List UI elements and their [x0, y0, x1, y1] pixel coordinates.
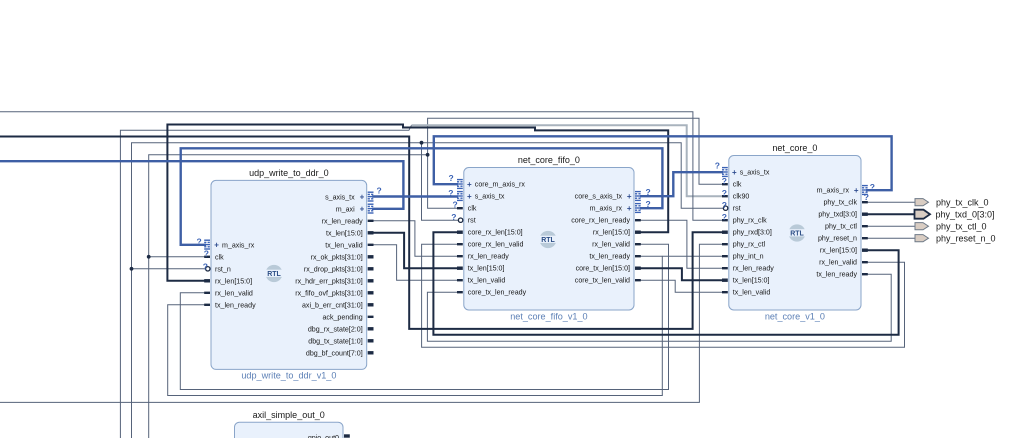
svg-text:+: + — [360, 193, 365, 202]
svg-text:core_rx_len_ready: core_rx_len_ready — [571, 217, 630, 225]
svg-text:s_axis_tx: s_axis_tx — [740, 169, 770, 177]
svg-text:rx_len_ready: rx_len_ready — [468, 253, 509, 261]
pin udp_write_to_ddr_0.m_axi — [368, 204, 374, 205]
wire udp.s_axis_tx stream to fifo.s_axis_tx — [372, 195, 458, 197]
pin net_core_fifo_0.s_axis_tx — [457, 191, 463, 192]
svg-text:+: + — [732, 168, 737, 177]
svg-text:s_axis_tx: s_axis_tx — [325, 193, 355, 201]
pin udp_write_to_ddr_0.dbg_rx_state[2:0] — [368, 327, 374, 330]
svg-text:udp_write_to_ddr_0: udp_write_to_ddr_0 — [249, 168, 329, 178]
pin net_core_0.phy_reset_n — [862, 237, 868, 239]
svg-text:?: ? — [448, 188, 453, 198]
wire clk90 net gray bus part to net_core.clk90 — [412, 125, 724, 196]
svg-text:phy_tx_ctl: phy_tx_ctl — [825, 223, 857, 231]
svg-text:tx_len[15:0]: tx_len[15:0] — [468, 265, 505, 273]
svg-text:core_rx_len_valid: core_rx_len_valid — [468, 241, 524, 249]
pin net_core_fifo_0.m_axis_rx — [635, 203, 641, 204]
output port phy_reset_n_0 — [915, 235, 929, 242]
svg-text:clk: clk — [215, 253, 224, 261]
wire rst branch to udp.rst_n — [132, 268, 207, 270]
svg-text:+: + — [627, 204, 632, 213]
RTL icon of net_core_fifo_0 — [539, 231, 558, 248]
svg-text:phy_reset_n: phy_reset_n — [818, 235, 857, 243]
wire net_core.rx_len_valid loop to fifo.core_rx_len_valid — [422, 244, 905, 347]
svg-text:rx_len[15:0]: rx_len[15:0] — [593, 229, 630, 237]
pin net_core_fifo_0.core_rx_len_valid — [457, 243, 463, 245]
pin udp_write_to_ddr_0.rx_len[15:0] — [204, 279, 210, 282]
svg-text:?: ? — [449, 173, 454, 183]
svg-text:net_core_fifo_0: net_core_fifo_0 — [518, 155, 580, 165]
wire clk branch to fifo.clk — [428, 155, 458, 208]
svg-text:phy_tx_ctl_0: phy_tx_ctl_0 — [936, 221, 987, 231]
wire clk branch to udp.clk — [149, 256, 206, 258]
pin net_core_fifo_0.core_rx_len_ready — [635, 219, 641, 221]
pin udp_write_to_ddr_0.ack_pending — [368, 316, 374, 318]
svg-text:net_core_fifo_v1_0: net_core_fifo_v1_0 — [510, 311, 587, 321]
pin udp_write_to_ddr_0.rst_n — [206, 267, 210, 271]
IP block net_core_0 — [729, 156, 861, 311]
junction clk junction to fifo — [426, 153, 430, 157]
svg-text:s_axis_tx: s_axis_tx — [475, 193, 505, 201]
svg-text:clk: clk — [733, 181, 742, 189]
wire rst net trunk to net_core.rst — [132, 143, 724, 438]
wire clk net trunk (vertical x=148.7 + horizontal y=154.8) — [149, 155, 428, 438]
svg-text:rst: rst — [733, 205, 741, 213]
pin udp_write_to_ddr_0.clk — [204, 256, 210, 258]
wire clk branch to net_core.clk — [428, 118, 723, 184]
svg-text:tx_len[15:0]: tx_len[15:0] — [326, 229, 363, 237]
pin net_core_fifo_0.tx_len_ready — [635, 255, 641, 257]
svg-text:+: + — [467, 180, 472, 189]
pin udp_write_to_ddr_0.rx_fifo_ovf_pkts[31:0] — [368, 291, 374, 294]
svg-text:rx_len_valid: rx_len_valid — [592, 241, 630, 249]
svg-text:?: ? — [377, 186, 382, 196]
pin net_core_0.phy_rx_ctl — [722, 243, 728, 245]
pin net_core_0.phy_rx_clk — [722, 219, 728, 221]
svg-text:?: ? — [453, 200, 458, 210]
svg-text:clk90: clk90 — [733, 193, 750, 201]
wire fifo.tx_len_ready stub join — [640, 255, 662, 257]
pin net_core_0.rst — [723, 206, 727, 210]
wire fifo.core_tx_len_valid to net_core.tx_len_valid — [640, 280, 723, 292]
pin net_core_0.phy_int_n — [722, 255, 728, 257]
svg-text:?: ? — [203, 261, 208, 271]
wire udp.tx_len_valid to fifo.tx_len_valid — [372, 245, 458, 280]
wire udp.tx_len_ready loop to fifo.tx_len_ready and phy_int_n row — [168, 256, 723, 395]
svg-text:dbg_rx_state[2:0]: dbg_rx_state[2:0] — [308, 325, 363, 333]
pin net_core_0.clk — [722, 183, 728, 185]
pin udp_write_to_ddr_0.rx_hdr_err_pkts[31:0] — [368, 279, 374, 282]
pin udp_write_to_ddr_0.tx_len_valid — [368, 244, 374, 246]
pin net_core_0.s_axis_tx — [722, 167, 728, 168]
svg-text:?: ? — [722, 188, 727, 198]
svg-text:tx_len_valid: tx_len_valid — [468, 277, 506, 285]
svg-text:?: ? — [451, 212, 456, 222]
wire fifo.rx_len bus over top to udp.rx_len — [167, 125, 668, 281]
pin udp_write_to_ddr_0.m_axis_rx — [204, 240, 210, 241]
svg-text:?: ? — [722, 176, 727, 186]
svg-text:m_axi: m_axi — [336, 205, 355, 213]
svg-text:+: + — [360, 205, 365, 214]
svg-text:rx_ok_pkts[31:0]: rx_ok_pkts[31:0] — [311, 253, 363, 261]
pin net_core_fifo_0.core_s_axis_tx — [635, 191, 641, 192]
pin udp_write_to_ddr_0.rx_len_valid — [204, 292, 210, 294]
wire net_core.phy_tx_clk to output port — [866, 201, 915, 203]
svg-text:phy_rx_ctl: phy_rx_ctl — [733, 241, 766, 249]
pin net_core_0.phy_tx_clk — [862, 201, 868, 203]
svg-text:+: + — [627, 192, 632, 201]
svg-text:rx_len[15:0]: rx_len[15:0] — [215, 277, 252, 285]
pin udp_write_to_ddr_0.rx_drop_pkts[31:0] — [368, 267, 374, 270]
wire udp.tx_len bus to fifo.tx_len — [372, 233, 458, 268]
svg-text:RTL: RTL — [541, 237, 555, 244]
pin net_core_fifo_0.rx_len_valid — [635, 243, 641, 245]
svg-text:phy_rxd[3:0]: phy_rxd[3:0] — [733, 229, 772, 237]
pin net_core_0.rx_len[15:0] — [862, 249, 868, 252]
wire net_core.phy_txd bus to output port — [866, 213, 914, 215]
wire fifo.core_s_axis_tx stream to net_core.s_axis_tx — [640, 172, 723, 196]
pin udp_write_to_ddr_0.rx_ok_pkts[31:0] — [368, 255, 374, 258]
svg-text:?: ? — [722, 212, 727, 222]
pin net_core_fifo_0.core_rx_len[15:0] — [457, 231, 463, 234]
pin net_core_0.rx_len_ready — [722, 267, 728, 269]
svg-text:phy_reset_n_0: phy_reset_n_0 — [936, 233, 996, 243]
pin net_core_fifo_0.core_tx_len[15:0] — [635, 267, 641, 270]
junction clk junction at udp.clk — [147, 255, 151, 259]
svg-text:tx_len_ready: tx_len_ready — [816, 271, 857, 279]
svg-text:rx_len_valid: rx_len_valid — [215, 289, 253, 297]
svg-text:?: ? — [722, 200, 727, 210]
svg-text:core_m_axis_rx: core_m_axis_rx — [475, 181, 526, 189]
svg-text:tx_len_ready: tx_len_ready — [215, 301, 256, 309]
svg-text:?: ? — [864, 192, 869, 202]
svg-text:net_core_0: net_core_0 — [772, 143, 817, 153]
svg-text:rst: rst — [468, 217, 476, 225]
svg-text:m_axis_rx: m_axis_rx — [590, 205, 623, 213]
svg-text:?: ? — [646, 199, 651, 209]
svg-text:RTL: RTL — [267, 271, 281, 278]
svg-text:+: + — [467, 192, 472, 201]
svg-text:rx_fifo_ovf_pkts[31:0]: rx_fifo_ovf_pkts[31:0] — [295, 289, 362, 297]
pin net_core_0.phy_tx_ctl — [862, 225, 868, 227]
output port phy_tx_ctl_0 — [915, 223, 929, 230]
wire net_core.rx_len bus loop to fifo.core_rx_len — [433, 232, 898, 335]
svg-text:+: + — [854, 186, 859, 195]
pin udp_write_to_ddr_0.s_axis_tx — [368, 192, 374, 193]
pin net_core_fifo_0.core_tx_len_ready — [457, 291, 463, 293]
svg-text:phy_tx_clk: phy_tx_clk — [823, 199, 857, 207]
svg-text:rx_len_ready: rx_len_ready — [322, 217, 363, 225]
svg-text:tx_len_valid: tx_len_valid — [325, 241, 363, 249]
wire phy_rx_ctl input from left edge bottom to net_core.phy_rx_ctl — [0, 244, 723, 402]
IP block axil_simple_out_0 (partially cropped) — [235, 422, 344, 438]
svg-text:+: + — [214, 241, 219, 250]
svg-text:m_axis_rx: m_axis_rx — [222, 241, 255, 249]
svg-text:phy_int_n: phy_int_n — [733, 253, 764, 261]
pin net_core_0.rx_len_valid — [862, 261, 868, 263]
wire fifo.m_axis_rx stream to udp.m_axis_rx — [181, 148, 663, 245]
svg-text:core_tx_len_valid: core_tx_len_valid — [575, 277, 630, 285]
wire net_core.tx_len_ready loop to fifo.core_tx_len_ready — [427, 274, 891, 341]
svg-text:phy_rx_clk: phy_rx_clk — [733, 217, 767, 225]
wire fifo.core_tx_len bus to net_core.tx_len — [640, 268, 723, 280]
svg-text:core_rx_len[15:0]: core_rx_len[15:0] — [468, 229, 523, 237]
pin net_core_fifo_0.tx_len[15:0] — [457, 267, 463, 270]
pin net_core_fifo_0.rx_len_ready — [457, 255, 463, 257]
pin net_core_fifo_0.rx_len[15:0] — [635, 231, 641, 234]
svg-text:rx_hdr_err_pkts[31:0]: rx_hdr_err_pkts[31:0] — [295, 277, 362, 285]
wire net_core.phy_tx_ctl to output port — [866, 225, 915, 227]
pin udp_write_to_ddr_0.axi_b_err_cnt[31:0] — [368, 303, 374, 306]
RTL icon of net_core_0 — [788, 224, 807, 241]
svg-text:rx_len[15:0]: rx_len[15:0] — [820, 247, 857, 255]
svg-text:?: ? — [715, 160, 720, 170]
svg-text:tx_len_valid: tx_len_valid — [733, 289, 771, 297]
svg-text:rx_len_ready: rx_len_ready — [733, 265, 774, 273]
svg-text:phy_txd[3:0]: phy_txd[3:0] — [818, 211, 857, 219]
wire udp.m_axi AXI interface to left edge — [0, 161, 403, 209]
pin net_core_0.phy_rxd[3:0] — [722, 231, 728, 234]
output port phy_tx_clk_0 — [915, 199, 929, 206]
svg-text:tx_len[15:0]: tx_len[15:0] — [733, 277, 770, 285]
svg-text:?: ? — [870, 182, 875, 192]
svg-text:dbg_tx_state[1:0]: dbg_tx_state[1:0] — [308, 337, 362, 345]
svg-text:gpio_out0: gpio_out0 — [308, 434, 339, 438]
svg-text:ack_pending: ack_pending — [322, 313, 362, 321]
wire udp.rx_len_ready to fifo.rx_len_ready — [372, 221, 458, 256]
junction rst junction to fifo — [420, 141, 424, 145]
svg-text:net_core_v1_0: net_core_v1_0 — [765, 311, 825, 321]
svg-text:phy_tx_clk_0: phy_tx_clk_0 — [936, 197, 989, 207]
svg-text:RTL: RTL — [790, 231, 804, 238]
svg-text:axi_b_err_cnt[31:0]: axi_b_err_cnt[31:0] — [302, 301, 363, 309]
svg-text:core_s_axis_tx: core_s_axis_tx — [575, 193, 623, 201]
svg-text:m_axis_rx: m_axis_rx — [817, 187, 850, 195]
pin net_core_fifo_0.core_tx_len_valid — [635, 279, 641, 281]
pin net_core_0.m_axis_rx — [862, 185, 868, 186]
svg-text:rx_len_valid: rx_len_valid — [819, 259, 857, 267]
pin udp_write_to_ddr_0.tx_len_ready — [204, 304, 210, 306]
pin udp_write_to_ddr_0.dbg_tx_state[1:0] — [368, 339, 374, 342]
pin udp_write_to_ddr_0.rx_len_ready — [368, 220, 374, 222]
pin net_core_0.tx_len_ready — [862, 273, 868, 275]
pin udp_write_to_ddr_0.dbg_bf_count[7:0] — [368, 351, 374, 354]
svg-text:clk: clk — [468, 205, 477, 213]
pin net_core_0.tx_len_valid — [722, 291, 728, 293]
svg-text:tx_len_ready: tx_len_ready — [589, 253, 630, 261]
svg-text:phy_txd_0[3:0]: phy_txd_0[3:0] — [936, 209, 995, 219]
svg-text:core_tx_len[15:0]: core_tx_len[15:0] — [576, 265, 630, 273]
pin net_core_fifo_0.core_m_axis_rx — [457, 179, 463, 180]
pin net_core_fifo_0.clk — [457, 207, 463, 209]
svg-text:dbg_bf_count[7:0]: dbg_bf_count[7:0] — [306, 349, 363, 357]
RTL icon of udp_write_to_ddr_0 — [265, 265, 284, 282]
wire fifo.core_rx_len_ready to net_core.rx_len_ready — [640, 220, 723, 268]
svg-text:?: ? — [646, 187, 651, 197]
junction rst junction at udp.rst_n — [130, 267, 134, 271]
pin net_core_0.clk90 — [722, 195, 728, 197]
pin net_core_0.tx_len[15:0] — [722, 279, 728, 282]
wire phy_rxd[3:0] bus from left edge around bottom to net_core.phy_rxd — [0, 137, 723, 329]
svg-text:udp_write_to_ddr_v1_0: udp_write_to_ddr_v1_0 — [241, 371, 336, 381]
pin net_core_fifo_0.rst — [458, 218, 462, 222]
pin net_core_fifo_0.tx_len_valid — [457, 279, 463, 281]
wire phy_rx_clk input from left edge to net_core.phy_rx_clk — [0, 112, 723, 220]
pin net_core_0.phy_txd[3:0] — [862, 213, 868, 216]
wire fifo.rx_len_valid loop to udp.rx_len_valid — [180, 244, 668, 389]
wire clk90 net thin part (x=120.4 up, y=130.3 right) — [120, 125, 411, 438]
output port phy_txd_0[3:0] — [915, 210, 931, 219]
svg-text:rst_n: rst_n — [215, 265, 231, 273]
svg-text:?: ? — [204, 249, 209, 259]
wire net_core.m_axis_rx stream to fifo.core_m_axis_rx — [434, 136, 892, 190]
svg-text:?: ? — [197, 237, 202, 247]
IP block net_core_fifo_0 — [464, 168, 634, 311]
svg-text:core_tx_len_ready: core_tx_len_ready — [468, 289, 527, 297]
pin udp_write_to_ddr_0.tx_len[15:0] — [368, 231, 374, 234]
IP block udp_write_to_ddr_0 — [211, 180, 367, 369]
wire rst branch to fifo.rst — [422, 143, 459, 221]
svg-text:axil_simple_out_0: axil_simple_out_0 — [253, 410, 325, 420]
svg-text:rx_drop_pkts[31:0]: rx_drop_pkts[31:0] — [304, 265, 363, 273]
wire net_core.phy_reset_n to output port — [866, 237, 915, 239]
